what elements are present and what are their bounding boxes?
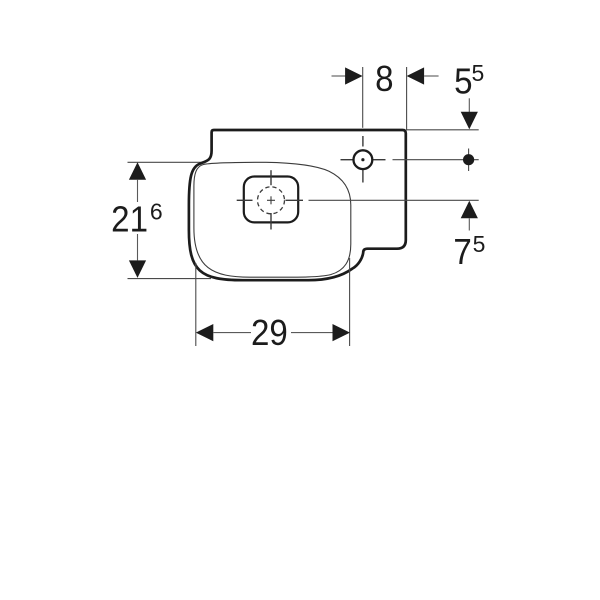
drain dashed circle — [258, 187, 285, 214]
svg-text:21: 21 — [111, 200, 148, 240]
dimension 8: right arrow — [407, 67, 425, 84]
svg-text:29: 29 — [251, 314, 288, 354]
dimension 21.6: down arrow — [129, 260, 146, 278]
dimension 8: right tail — [424, 75, 439, 77]
svg-text:5: 5 — [454, 62, 472, 102]
tap hole center dot — [361, 158, 364, 161]
dimension 29: line right segment — [291, 332, 333, 334]
dimension 21.6: up arrow — [129, 162, 146, 180]
drain outline (thick rounded square) — [244, 177, 298, 223]
dot marker — [463, 154, 474, 165]
dimension 29: left arrow — [196, 324, 214, 341]
drain centerline ticks — [270, 170, 272, 185]
svg-text:5: 5 — [472, 60, 485, 86]
basin outer outline (thick) — [189, 130, 406, 280]
dimension 5.5: tail — [468, 98, 470, 112]
dot marker vertical line — [468, 149, 470, 172]
dimension 5.5: down arrow — [461, 112, 478, 130]
dimension 8: left arrow — [345, 67, 363, 84]
svg-text:5: 5 — [473, 231, 486, 257]
tap hole — [354, 150, 373, 169]
dimension 7.5: up arrow — [461, 201, 478, 219]
dimension 8: left tail — [332, 75, 347, 77]
reference line: drain center to right column — [309, 199, 479, 201]
dimension 7.5: tail — [468, 218, 470, 230]
dimension 29: line left segment — [213, 332, 251, 334]
tap hole centerline ticks — [362, 136, 364, 147]
extension line: 29 right — [349, 258, 351, 346]
reference line: top edge extended right — [406, 129, 479, 131]
drain center cross — [267, 199, 275, 201]
extension line: right edge up to dim 8 — [406, 67, 408, 130]
reference line: tap hole line to dot — [393, 159, 479, 161]
svg-text:6: 6 — [150, 199, 163, 225]
extension line top-left (21.6 top) — [128, 161, 223, 163]
dimension 21.6: line lower segment — [137, 234, 139, 260]
dimension 21.6: line upper segment — [137, 180, 139, 202]
svg-text:7: 7 — [453, 233, 471, 273]
svg-text:8: 8 — [375, 60, 393, 100]
dimension 29: right arrow — [333, 324, 351, 341]
extension line: tap hole centerline up to dim 8 — [362, 67, 364, 128]
basin inner bowl contour (thin) — [194, 162, 351, 277]
extension line: 29 left — [195, 263, 197, 346]
extension line bottom-left (21.6 bottom) — [128, 278, 212, 280]
